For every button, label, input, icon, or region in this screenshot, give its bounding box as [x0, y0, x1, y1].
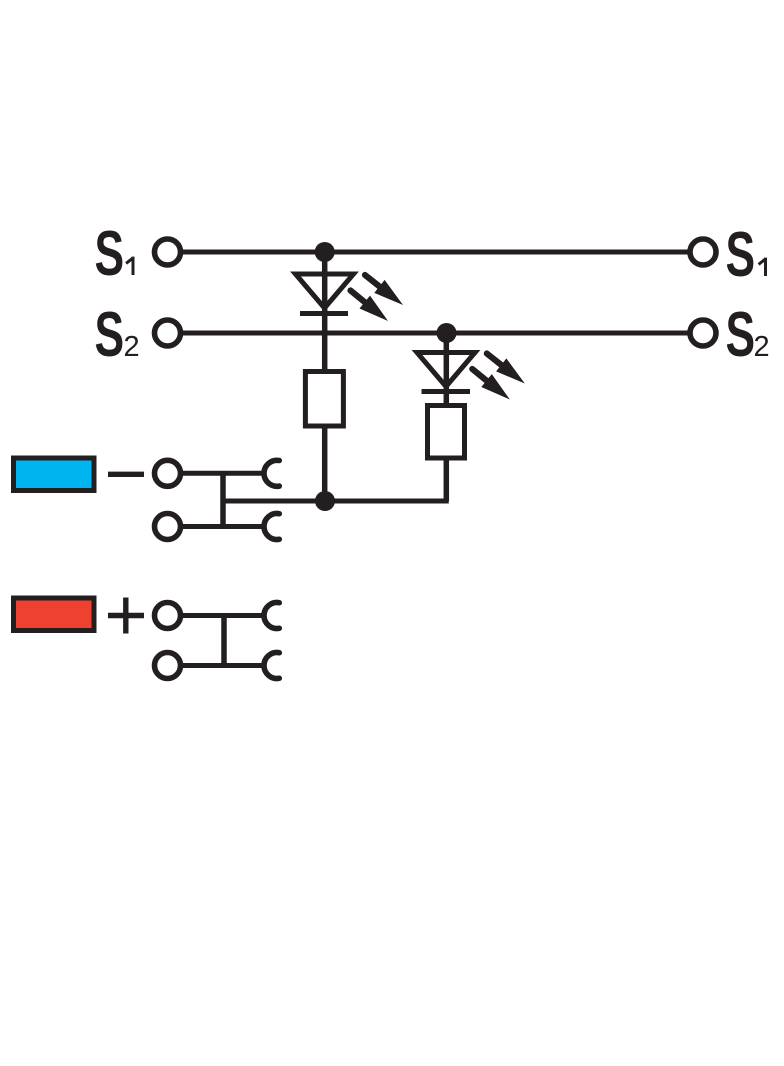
wire R2 down [444, 458, 450, 501]
wire minus bridge vertical [220, 473, 226, 526]
svg-text:S: S [726, 299, 756, 370]
wire plus bridge vertical [221, 616, 227, 666]
wire minus 2 to clamp [181, 524, 266, 529]
svg-text:S: S [95, 218, 125, 289]
plus terminal circle 1 [155, 603, 181, 629]
wire R2 to node J3 [325, 499, 449, 504]
LED D2 emission arrow 2 [472, 369, 510, 400]
label S1 right [726, 219, 766, 290]
node junction J3 [315, 491, 335, 511]
wire S2 bus [183, 331, 690, 336]
node junction J2 on S2 [437, 323, 457, 343]
LED D1 triangle [296, 274, 354, 308]
plus sign [108, 598, 144, 634]
node junction J1 on S1 [315, 242, 335, 262]
svg-text:2: 2 [754, 331, 770, 363]
resistor R2 [428, 406, 465, 459]
minus terminal circle 1 [155, 460, 181, 486]
terminal S1 left [155, 239, 181, 265]
clamp contact 4 [264, 653, 279, 679]
LED D2 triangle [417, 353, 475, 387]
label S2 right [726, 299, 770, 370]
wire minus to node J3 [223, 499, 325, 504]
LED D1 cathode bar [300, 311, 348, 316]
svg-text:2: 2 [124, 331, 140, 363]
label S2 left [95, 299, 140, 370]
wire LED1 anode drop [322, 252, 328, 371]
wire plus 2 to clamp [181, 663, 266, 668]
red marking (plus rail) [14, 598, 95, 631]
svg-text:S: S [726, 219, 756, 290]
clamp contact 3 [264, 603, 279, 629]
plus terminal circle 2 [155, 653, 181, 679]
minus sign [108, 472, 144, 477]
LED D1 emission arrow 1 [365, 275, 403, 305]
clamp contact 2 [264, 514, 279, 540]
svg-text:S: S [95, 299, 125, 370]
terminal S2 right [690, 320, 716, 346]
wire minus 1 to clamp [181, 471, 266, 476]
label S1 left [95, 218, 134, 289]
terminal S2 left [155, 320, 181, 346]
LED D2 cathode bar [422, 389, 471, 394]
wire S1 bus [183, 250, 690, 255]
resistor R1 [305, 372, 343, 427]
wire R1 to node J3 [322, 426, 328, 501]
clamp contact 1 [264, 460, 279, 486]
wire LED2 anode drop [444, 333, 450, 406]
LED D2 emission arrow 1 [487, 354, 525, 384]
minus terminal circle 2 [155, 514, 181, 540]
blue marking (minus rail) [14, 458, 95, 491]
terminal S1 right [690, 239, 716, 265]
wire plus 1 to clamp [181, 613, 266, 618]
LED D1 emission arrow 2 [351, 291, 389, 322]
